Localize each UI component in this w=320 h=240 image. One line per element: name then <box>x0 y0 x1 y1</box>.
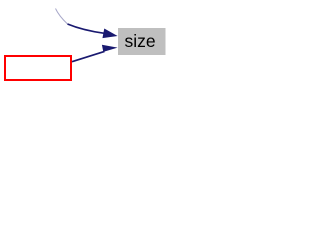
wire: upper edge faint tail segment <box>56 9 68 25</box>
wire: upper edge main segment into node size <box>68 24 105 33</box>
arrowhead of upper edge <box>102 28 117 38</box>
arrowhead of lower edge <box>102 45 118 52</box>
wire: lower edge from red node toward node size <box>72 51 105 61</box>
svg-text:size: size <box>125 31 156 51</box>
label size <box>125 31 156 51</box>
node current (red bordered box, empty label) <box>5 56 71 80</box>
node size (grey filled box) <box>118 28 166 55</box>
